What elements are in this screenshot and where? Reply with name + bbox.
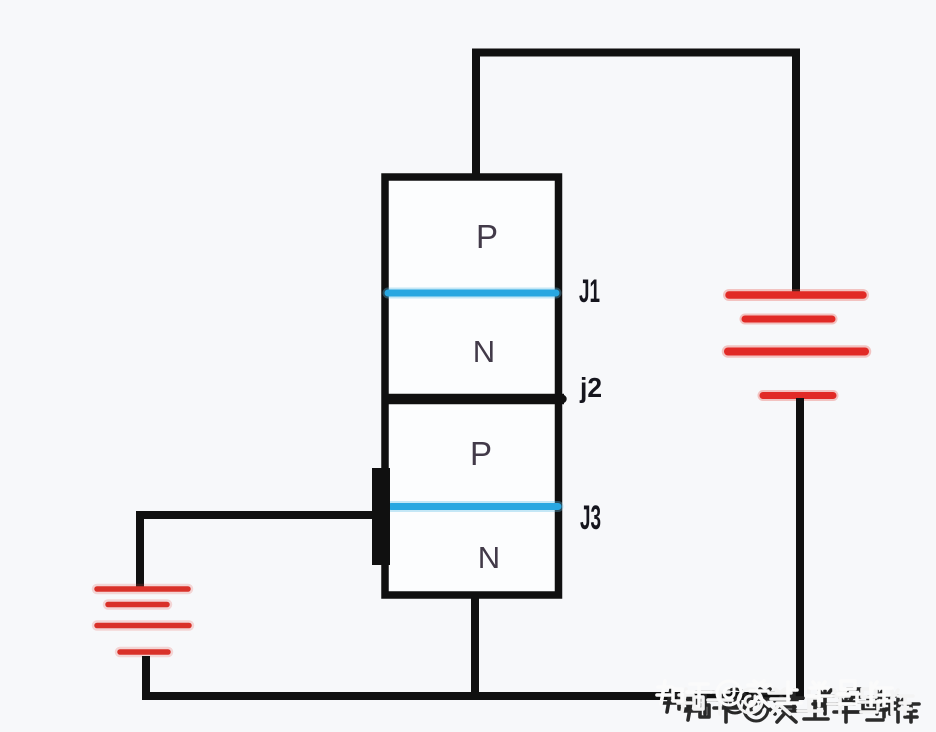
V1 plate long: [728, 348, 865, 356]
wire: gate lead (left battery positive to gate tab): [140, 515, 378, 588]
wire: cathode lead (box bottom to bottom rail): [471, 595, 479, 696]
junction J2 dividing line (black): [382, 394, 565, 405]
V1 plate long top: [729, 291, 863, 299]
svg-text:J1: J1: [579, 273, 600, 309]
V2 plate short bottom: [120, 649, 168, 655]
wire: V2 negative down to bottom rail: [142, 656, 150, 700]
wire: bottom rail: [142, 692, 804, 700]
V2 plate long: [97, 623, 189, 629]
PNPN structure outline (thyristor body): [385, 177, 559, 595]
wire: V1 negative down to bottom rail: [796, 398, 804, 700]
wire: anode loop (box top to right battery positive): [476, 53, 796, 293]
battery V2 (left gate supply): [97, 589, 189, 652]
junction J3 line (blue): [391, 501, 558, 512]
V2 plate short: [108, 602, 167, 608]
svg-text:P: P: [476, 218, 498, 255]
gate tab terminal: [372, 468, 390, 565]
svg-text:J3: J3: [580, 499, 601, 537]
svg-text:N: N: [478, 540, 500, 575]
junction J1 line (blue): [388, 288, 556, 299]
svg-text:j2: j2: [579, 372, 602, 403]
battery V1 (right anode supply): [728, 295, 865, 396]
V1 plate short bottom: [763, 392, 833, 399]
V2 plate long top: [97, 586, 188, 592]
V1 plate short: [745, 316, 832, 323]
node j2 bump on right edge: [558, 395, 566, 403]
svg-text:P: P: [470, 435, 492, 472]
svg-text:N: N: [473, 334, 495, 369]
